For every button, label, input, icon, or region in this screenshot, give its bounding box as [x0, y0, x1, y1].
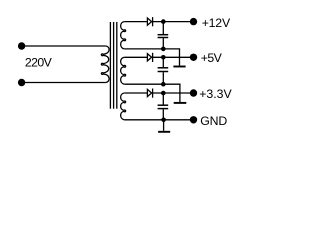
svg-text:+3.3V: +3.3V [199, 87, 232, 101]
svg-text:GND: GND [200, 114, 227, 128]
svg-text:+5V: +5V [201, 51, 223, 65]
svg-text:+12V: +12V [202, 16, 231, 30]
svg-text:220V: 220V [25, 56, 53, 70]
